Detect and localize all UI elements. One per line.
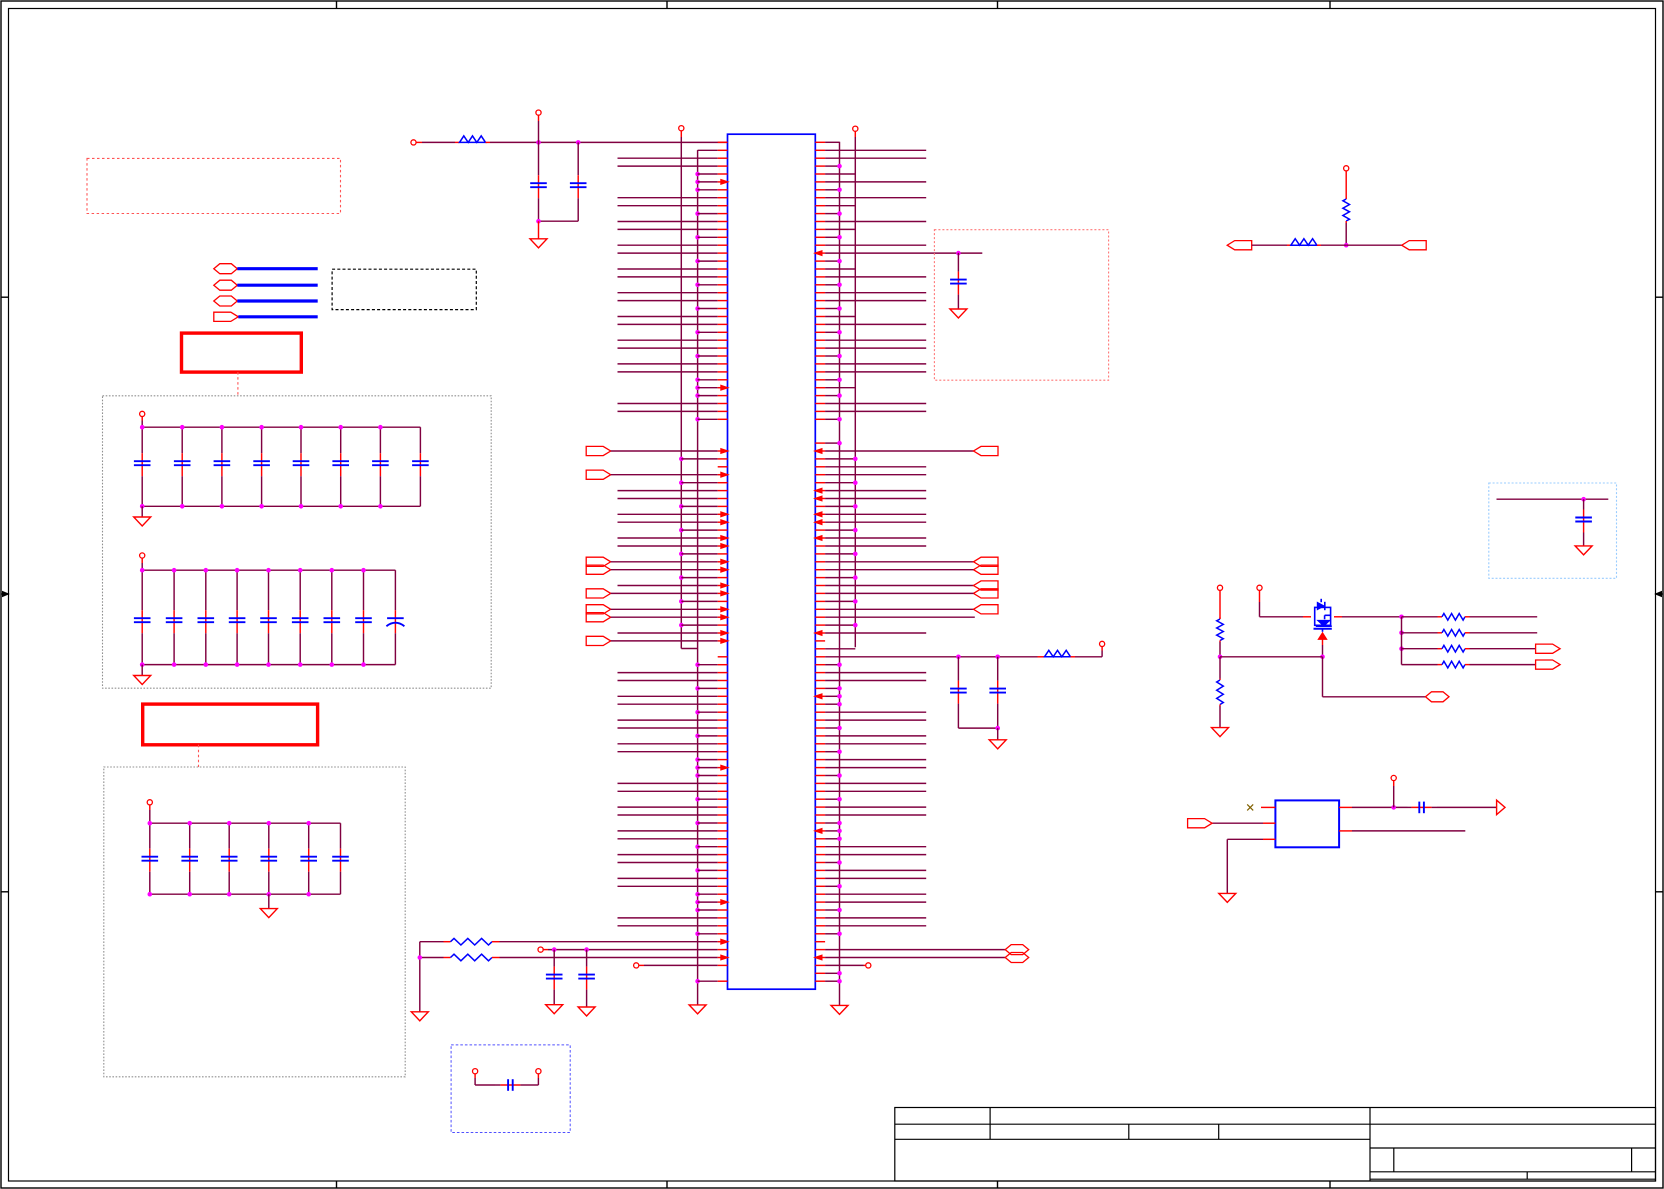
- U1 right pin row 91: [815, 854, 825, 856]
- U1 left pin row 59: [679, 599, 684, 604]
- left bus net A terminal: [679, 126, 684, 131]
- U1 right pin row 77: [815, 743, 825, 745]
- junction bank1 top 4: [259, 425, 264, 430]
- resistor R10 branch: [1402, 664, 1438, 666]
- U1 left pin row 55: [611, 569, 718, 571]
- FPGA U1: [728, 134, 816, 989]
- blue bus wire 1: [237, 267, 317, 270]
- wire R5 to J7: [1219, 642, 1221, 657]
- junction bank1 bottom 7: [378, 504, 383, 509]
- terminal T8: [536, 1069, 541, 1074]
- frame center arrow left: [1, 593, 9, 595]
- frame zone tick top 1: [336, 1, 338, 9]
- U1 right pin row 79: [815, 759, 825, 761]
- junction bank2 top 3: [204, 568, 209, 573]
- U1 left pin row 63: [618, 632, 718, 634]
- U1 left pin row 15: [618, 252, 718, 254]
- junction bank1 top 2: [180, 425, 185, 430]
- U1 right pin row 58: [815, 592, 825, 594]
- U1 left pin row 44: [679, 480, 684, 485]
- blue bus wire 2: [237, 284, 317, 287]
- wire T6 to Q1: [1260, 616, 1304, 618]
- ground G11: [411, 1012, 428, 1021]
- junction J13: [1391, 805, 1396, 810]
- U1 right pin row 23: [815, 316, 825, 318]
- junction bank3 bottom 4: [267, 892, 272, 897]
- U1 right pin row 75: [815, 727, 825, 729]
- U1 right pin row 99: [815, 917, 825, 919]
- U2 pin2 wire: [1263, 822, 1275, 824]
- capacitor C12: [181, 427, 183, 453]
- U1 right pin row 85: [815, 806, 825, 808]
- capacitor C13: [221, 427, 223, 453]
- U1 right pin row 4: [815, 165, 825, 167]
- capacitor C9: [1583, 499, 1585, 509]
- U1 left pin row 42: [718, 466, 728, 468]
- U1 right pin row 50: [815, 529, 825, 531]
- U1 right pin row 65: [815, 648, 825, 650]
- blue bus wire 3: [237, 299, 317, 302]
- junction J3: [536, 219, 541, 224]
- terminal T5: [1217, 585, 1222, 590]
- U1 left pin row 6: [695, 180, 700, 185]
- net port bidir right bottom 2: [1005, 953, 1028, 963]
- U1 right pin row 89: [815, 838, 825, 840]
- capacitor C28: [363, 570, 365, 610]
- junction bank2 top 2: [172, 568, 177, 573]
- U1 right pin row 53: [815, 553, 825, 555]
- junction bank2 bottom 7: [330, 662, 335, 667]
- U1 left pin row 104: [500, 957, 718, 959]
- U1 left pin row 41: [679, 457, 684, 462]
- capacitor C24: [236, 570, 238, 610]
- gray dashed group box 1: [103, 396, 492, 688]
- U1 left pin row 61: [611, 616, 718, 618]
- U1 right pin row 69: [815, 680, 825, 682]
- U1 left pin row 24: [618, 323, 718, 325]
- wire R2 to T3: [1075, 656, 1102, 658]
- junction bank1 bottom 3: [220, 504, 225, 509]
- U1 right pin row 33: [815, 395, 825, 397]
- junction bank3 top 1: [148, 821, 153, 826]
- capacitor C21: [141, 570, 143, 610]
- U1 right pin row 59: [815, 600, 825, 602]
- U1 right pin row 104: [815, 957, 825, 959]
- U1 right pin row 13: [815, 236, 825, 238]
- U1 right pin row 64: [815, 640, 825, 642]
- red dashed connector 1: [237, 372, 239, 396]
- junction bank1 bottom 6: [338, 504, 343, 509]
- frame zone tick top 2: [666, 1, 668, 9]
- resistor R5: [1219, 618, 1221, 620]
- capacitor C32: [189, 823, 191, 849]
- U1 left pin row 93: [695, 868, 700, 873]
- junction bank2 bottom 3: [204, 662, 209, 667]
- U1 right pin row 71: [815, 695, 825, 697]
- U1 right pin row 8: [815, 197, 825, 199]
- U1 left pin row 56: [679, 575, 684, 580]
- resistor R7 branch: [1402, 616, 1438, 618]
- capacitor C27: [331, 570, 333, 610]
- U1 right pin row 73: [815, 711, 825, 713]
- U2 pin3 wire: [1263, 838, 1275, 840]
- port PL39 left: [586, 446, 611, 455]
- U1 left pin row 5: [695, 172, 700, 177]
- blue bus wire 4: [238, 315, 317, 318]
- bus port B3: [214, 296, 238, 306]
- U1 left pin row 79: [695, 757, 700, 762]
- U1 right pin row 29: [815, 363, 825, 365]
- U1 right pin row 55: [815, 569, 825, 571]
- U1 left pin row 80: [695, 765, 700, 770]
- U1 left pin row 30: [618, 371, 718, 373]
- U1 left pin row 50: [679, 528, 684, 533]
- port PTR1: [1227, 241, 1252, 250]
- U1 left pin row 95: [618, 885, 718, 887]
- capacitor C11: [586, 950, 588, 967]
- U1 right pin row 87: [815, 822, 825, 824]
- U1 right pin row 51: [815, 537, 825, 539]
- junction J1: [536, 140, 541, 145]
- U1 left pin row 81: [695, 773, 700, 778]
- U1 right pin row 45: [815, 490, 825, 492]
- ground G7: [957, 300, 959, 309]
- U1 left pin row 101: [695, 932, 700, 937]
- ground G6: [831, 1005, 848, 1014]
- wire PTR1 to R4: [1252, 244, 1287, 246]
- junction bank1 top 3: [220, 425, 225, 430]
- frame zone tick right 2: [1656, 891, 1664, 893]
- power node rail bank1: [140, 411, 145, 416]
- U1 right pin row 6: [815, 181, 825, 183]
- U1 right pin row 2: [815, 149, 825, 151]
- U1 left pin row 74: [618, 719, 718, 721]
- U1 right pin row 92: [815, 862, 825, 864]
- U1 right pin row 15: [815, 252, 825, 254]
- U1 left pin row 28: [695, 354, 700, 359]
- capacitor C13: [1408, 806, 1412, 808]
- U1 left pin row 96: [695, 892, 700, 897]
- U1 right pin row 52: [815, 545, 825, 547]
- ground G5: [689, 1005, 706, 1014]
- frame zone tick bottom 1: [336, 1181, 338, 1188]
- wire R3 down: [1345, 223, 1347, 245]
- wire net E: [1497, 498, 1609, 500]
- resistor R6: [1219, 679, 1221, 681]
- U1 left pin row 47: [679, 504, 684, 509]
- U1 right pin row 7: [815, 189, 825, 191]
- junction J7: [1218, 655, 1223, 660]
- U1 left pin row 70: [695, 686, 700, 691]
- capacitor C5: [577, 142, 579, 175]
- U1 right pin row 42: [815, 466, 825, 468]
- frame zone tick top 4: [1329, 1, 1331, 9]
- U1 left pin row 7: [695, 188, 700, 193]
- Q1 gate arrow: [1318, 633, 1327, 640]
- U1 left pin row 85: [618, 806, 718, 808]
- U1 right pin row 86: [815, 814, 825, 816]
- U1 left pin row 86: [618, 814, 718, 816]
- U1 right pin row 90: [815, 846, 825, 848]
- port PTR2: [1402, 241, 1427, 250]
- wire R4 to J5: [1317, 244, 1321, 246]
- junction J5: [1344, 243, 1349, 248]
- U1 right pin row 26: [815, 339, 825, 341]
- junction bank2 bottom 6: [298, 662, 303, 667]
- capacitor C6: [957, 253, 959, 272]
- capacitor C31: [149, 823, 151, 849]
- U1 left pin row 19: [695, 283, 700, 288]
- U1 right pin row 14: [815, 244, 825, 246]
- U1 left pin row 12: [618, 228, 718, 230]
- title block: [895, 1108, 1656, 1182]
- junction bank3 top 5: [306, 821, 311, 826]
- junction bank2 top 6: [298, 568, 303, 573]
- U1 right pin row 27: [815, 347, 825, 349]
- U1 left pin row 18: [618, 276, 718, 278]
- junction bank2 bottom 4: [235, 662, 240, 667]
- junction bank3 top 3: [227, 821, 232, 826]
- junction bank2 top 1: [140, 568, 145, 573]
- U1 left pin row 1: [718, 141, 728, 143]
- resistor R3: [1345, 198, 1347, 199]
- U1 left pin row 49: [618, 521, 718, 523]
- port PL63 left: [586, 636, 611, 645]
- U1 right pin row 95: [815, 885, 825, 887]
- U1 left pin row 57: [618, 585, 718, 587]
- capacitor C17: [379, 427, 381, 453]
- U1 right pin row 67: [815, 664, 825, 666]
- light blue dashed group box: [1489, 483, 1617, 578]
- U1 right pin row 18: [815, 276, 825, 278]
- junction bank2 top 5: [266, 568, 271, 573]
- U1 right pin row 74: [815, 719, 825, 721]
- ground G10: [1212, 728, 1229, 737]
- port PR59 right: [815, 608, 825, 610]
- resistor R12: [444, 957, 451, 959]
- U1 right pin row 19: [815, 284, 825, 286]
- capacitor C12: [495, 1084, 500, 1086]
- U1 right pin row 84: [815, 798, 825, 800]
- junction J2: [576, 140, 581, 145]
- junction bank3 top 4: [267, 821, 272, 826]
- ground G8: [997, 728, 999, 740]
- red dashed connector 2: [198, 745, 200, 767]
- power terminal T2: [536, 110, 541, 115]
- frame zone tick top 3: [997, 1, 999, 9]
- double port PR56 right: [815, 585, 825, 587]
- terminal T9: [1391, 775, 1396, 780]
- wire left stub: [420, 941, 444, 943]
- resistor R2: [1038, 656, 1045, 658]
- U1 right pin row 81: [815, 775, 825, 777]
- wire J7 to J8: [1220, 656, 1323, 658]
- U1 left pin row 16: [695, 259, 700, 264]
- junction bank1 top 6: [338, 425, 343, 430]
- U1 right pin row 36: [815, 418, 825, 420]
- U1 right pin row 34: [815, 403, 825, 405]
- wire R1 to U1: [490, 141, 728, 143]
- U1 left pin row 72: [618, 703, 718, 705]
- U1 right pin row 80: [815, 767, 825, 769]
- U1 right pin row 62: [815, 624, 825, 626]
- junction bank1 bottom 5: [299, 504, 304, 509]
- U1 left pin row 62: [679, 623, 684, 628]
- U1 left pin row 67: [695, 662, 700, 667]
- U1 right pin row 31: [815, 379, 825, 381]
- capacitor C22: [173, 570, 175, 610]
- U1 left pin row 34: [618, 403, 718, 405]
- black dashed annotation box: [332, 269, 476, 309]
- right bus net C: [839, 142, 841, 1006]
- U1 right pin row 46: [815, 498, 825, 500]
- U1 left pin row 45: [618, 490, 718, 492]
- junction J8: [1320, 655, 1325, 660]
- U1 left pin row 73: [695, 710, 700, 715]
- U1 right pin row 100: [815, 925, 825, 927]
- U1 right pin row 47: [815, 505, 825, 507]
- red instruction box 2: [143, 704, 318, 745]
- U1 right pin row 102: [815, 941, 825, 943]
- junction bank3 bottom 3: [227, 892, 232, 897]
- U1 right pin row 20: [815, 292, 825, 294]
- U1 right pin row 98: [815, 909, 825, 911]
- capacitor C23: [205, 570, 207, 610]
- U1 left pin row 13: [695, 235, 700, 240]
- junction bank2 bottom 2: [172, 662, 177, 667]
- junction bank2 bottom 1: [140, 662, 145, 667]
- U1 left pin row 102: [500, 941, 718, 943]
- left vertical net: [419, 942, 421, 1012]
- U1 left pin row 29: [618, 363, 718, 365]
- blue dashed group box: [451, 1045, 570, 1133]
- U2 pinA wire: [1339, 806, 1352, 808]
- U1 right pin row 83: [815, 790, 825, 792]
- bus port B2: [214, 280, 238, 290]
- U1 right pin row 56: [815, 577, 825, 579]
- U1 left pin row 51: [618, 537, 718, 539]
- port PG1: [1426, 692, 1450, 702]
- frame zone tick right 1: [1656, 296, 1664, 298]
- capacitor C8: [997, 657, 999, 681]
- double port PL53 left: [586, 557, 611, 566]
- resistor R8 branch: [1402, 632, 1438, 634]
- U1 right pin row 32: [815, 387, 825, 389]
- gray dashed group box 2: [104, 767, 405, 1077]
- U1 left pin row 10: [695, 211, 700, 216]
- U1 left pin row 71: [618, 695, 718, 697]
- ground bank2: [141, 665, 143, 676]
- junction J9: [1399, 615, 1404, 620]
- U1 right pin row 24: [815, 323, 825, 325]
- frame zone tick left 2: [1, 891, 9, 893]
- port PL42 left: [586, 470, 611, 479]
- junction bank1 bottom 2: [180, 504, 185, 509]
- U1 left pin row 2: [698, 149, 718, 151]
- U1 left pin row 75: [618, 727, 718, 729]
- U1 right pin row 48: [815, 513, 825, 515]
- U1 left pin row 103: [538, 947, 543, 952]
- U1 left pin row 69: [618, 680, 718, 682]
- U1 left pin row 27: [618, 347, 718, 349]
- U1 left pin row 76: [695, 734, 700, 739]
- PMOS transistor Q1: [1315, 607, 1331, 625]
- junction bank2 bottom 8: [361, 662, 366, 667]
- ground G13: [578, 1007, 595, 1016]
- capacitor C15: [300, 427, 302, 453]
- U1 right pin row 12: [815, 228, 825, 230]
- junction bank1 top 5: [299, 425, 304, 430]
- frame zone tick bottom 3: [997, 1181, 999, 1188]
- right bus net D terminal: [853, 126, 858, 131]
- U1 left pin row 84: [695, 797, 700, 802]
- U1 left pin row 87: [695, 821, 700, 826]
- U1 left pin row 48: [618, 513, 718, 515]
- U1 left pin row 52: [618, 545, 718, 547]
- U1 right pin row 107: [815, 980, 825, 982]
- frame zone tick bottom 2: [666, 1181, 668, 1188]
- left bus net B: [697, 150, 699, 1005]
- junction J4: [995, 726, 1000, 731]
- terminal T7: [473, 1069, 478, 1074]
- U1 left pin row 83: [618, 790, 718, 792]
- U1 right pin row 76: [815, 735, 825, 737]
- U1 left pin row 8: [618, 197, 718, 199]
- U1 right pin row 49: [815, 521, 825, 523]
- capacitor C16: [340, 427, 342, 453]
- capacitor C33: [228, 823, 230, 849]
- junction bank3 bottom 1: [148, 892, 153, 897]
- U1 right pin row 10: [815, 213, 825, 215]
- U1 left pin row 105: [634, 963, 639, 968]
- junction J11: [1399, 646, 1404, 651]
- U1 right pin row 97: [815, 901, 825, 903]
- U1 right pin row 5: [815, 173, 825, 175]
- U1 left pin row 78: [618, 751, 718, 753]
- U1 left pin row 77: [618, 743, 718, 745]
- input port P4: [214, 312, 239, 321]
- wire left stub 2: [420, 957, 444, 959]
- capacitor C11: [141, 427, 143, 453]
- capacitor C34: [268, 823, 270, 849]
- U1 left pin row 31: [695, 378, 700, 383]
- U1 left pin row 35: [618, 410, 718, 412]
- junction bank2 top 4: [235, 568, 240, 573]
- U1 left pin row 100: [618, 925, 718, 927]
- U1 right pin row 101: [815, 933, 825, 935]
- net port bidir right bottom 1: [1005, 945, 1028, 955]
- U1 right pin row 39: [815, 442, 825, 444]
- U1 right pin row 11: [815, 221, 825, 223]
- terminal T6: [1257, 585, 1262, 590]
- junction bank1 bottom 4: [259, 504, 264, 509]
- U1 left pin row 97: [695, 900, 700, 905]
- junction bank3 bottom 2: [187, 892, 192, 897]
- left bus net A corner: [681, 648, 697, 650]
- red dashed annotation box: [87, 158, 341, 213]
- U1 right pin row 41: [815, 458, 825, 460]
- red instruction box 1: [182, 333, 302, 372]
- U1 left pin row 3: [618, 157, 718, 159]
- U1 left pin row 91: [618, 854, 718, 856]
- capacitor C25: [268, 570, 270, 610]
- U1 right pin row 94: [815, 877, 825, 879]
- U1 left pin row 23: [618, 316, 718, 318]
- ground G12: [546, 1005, 563, 1014]
- wire J5 to PTR2: [1346, 244, 1402, 246]
- U1 right pin row 17: [815, 268, 825, 270]
- resistor R1: [455, 141, 460, 143]
